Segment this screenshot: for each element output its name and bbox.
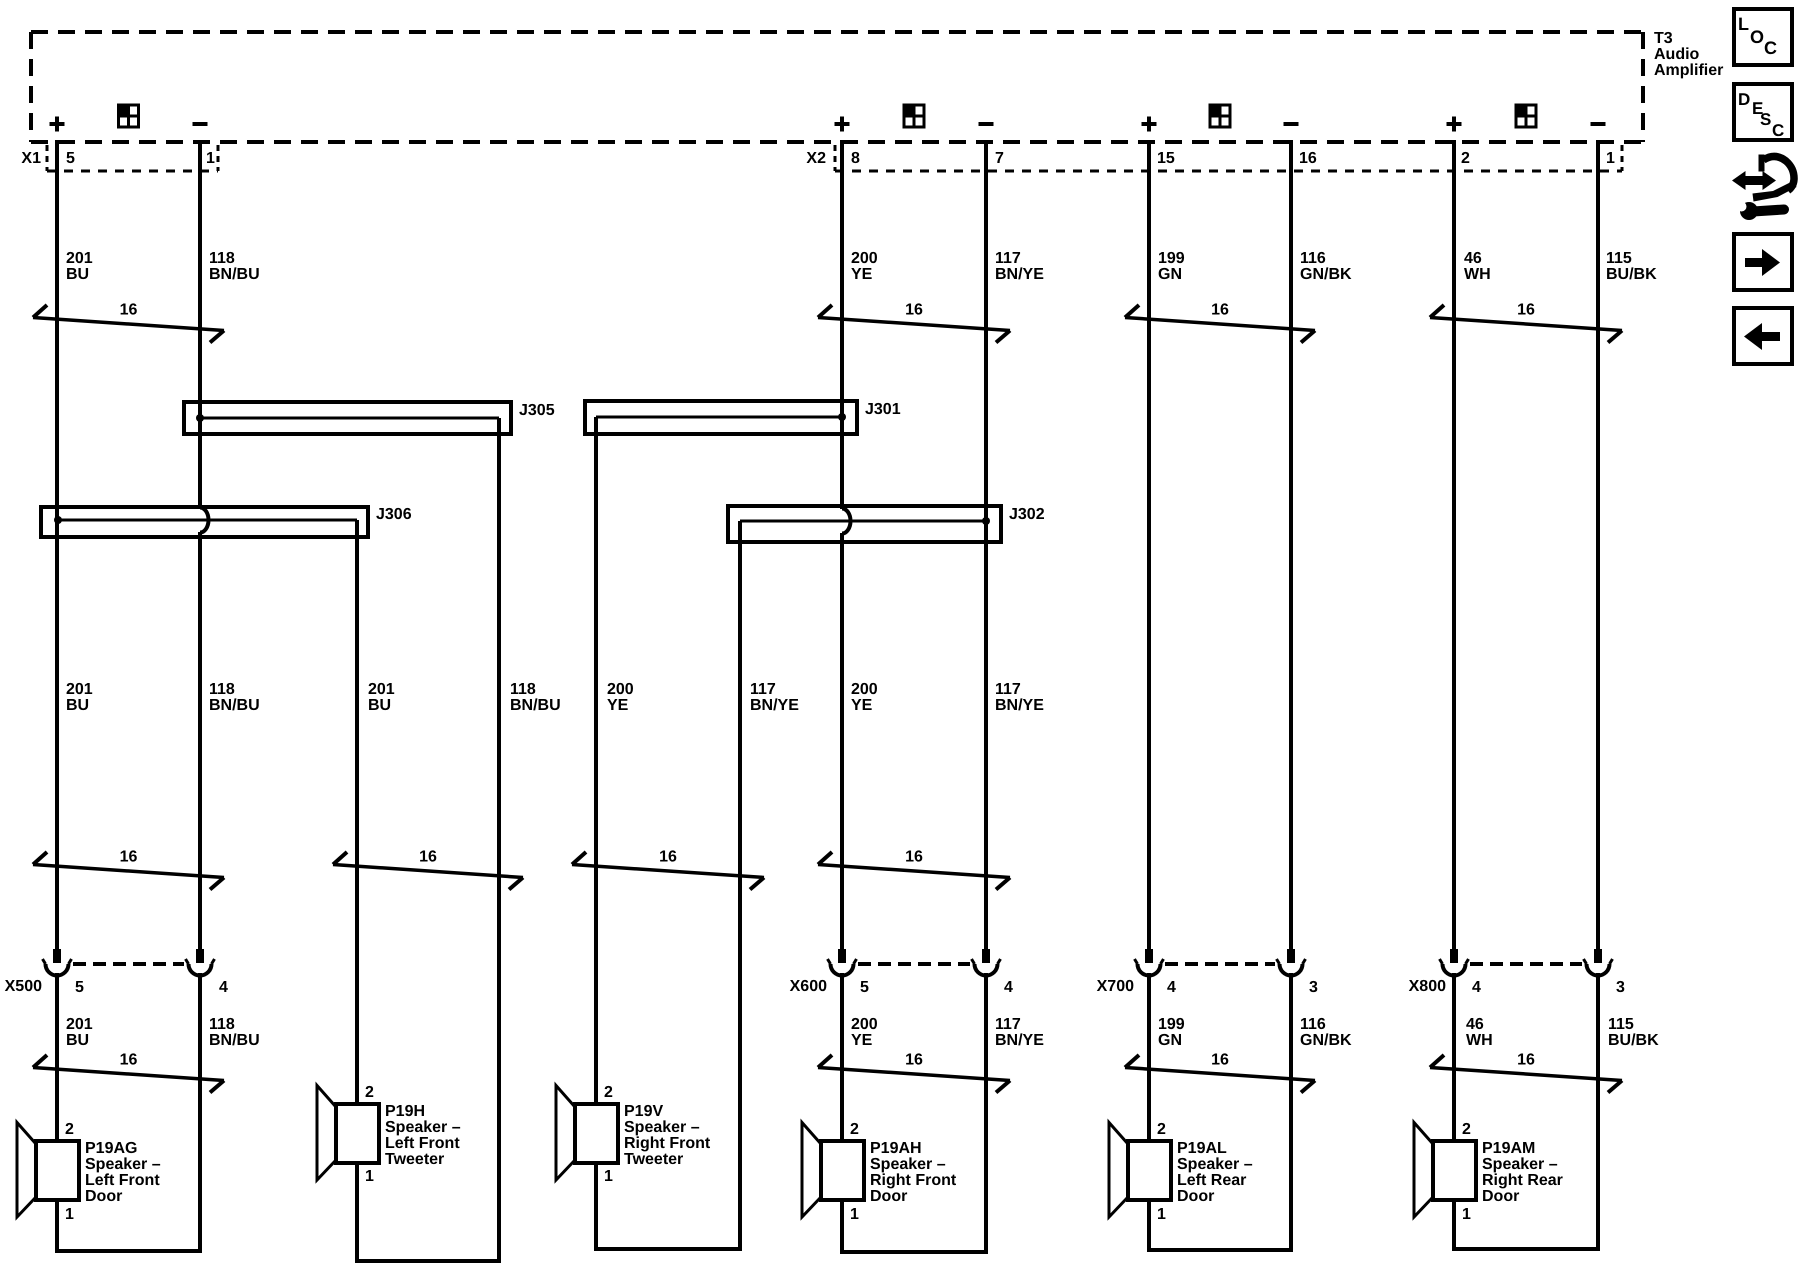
speaker P19AH: [802, 1123, 864, 1218]
wire label 46 WH (top row): [1464, 250, 1491, 283]
wire 201 BU tap from J306 down to P19H: [355, 520, 359, 1104]
speaker P19V: [556, 1086, 618, 1181]
svg-text:117: 117: [995, 1016, 1021, 1033]
svg-text:3: 3: [1616, 979, 1625, 996]
svg-text:O: O: [1750, 27, 1764, 47]
amplifier T3 dashed box: [31, 32, 1643, 142]
svg-text:1: 1: [365, 1168, 374, 1185]
svg-text:GN: GN: [1158, 266, 1182, 283]
svg-text:YE: YE: [851, 697, 873, 714]
connector X1 dashed box: [47, 145, 218, 171]
svg-text:Right Front: Right Front: [870, 1172, 957, 1189]
wire label 116 GN/BK (bottom row): [1300, 1016, 1352, 1049]
svg-text:117: 117: [995, 681, 1021, 698]
wire gauge 16 marker (bottom row, wires at x=842,986): [818, 1052, 1010, 1093]
svg-text:D: D: [1738, 90, 1750, 109]
wire 117 BN/YE tap from J302 down to P19V loop: [738, 521, 742, 1249]
label P19AL Speaker - Left Rear Door: [1177, 1140, 1253, 1205]
amp output + terminal (pair 3): [1142, 117, 1157, 132]
svg-text:X2: X2: [806, 150, 826, 167]
svg-text:Left Front: Left Front: [85, 1172, 160, 1189]
wire label 200 YE (middle row): [851, 681, 878, 714]
svg-text:J306: J306: [376, 506, 412, 523]
svg-text:YE: YE: [851, 266, 873, 283]
amp output + terminal (pair 4): [1447, 117, 1462, 132]
wire gauge 16 marker (bottom row, wires at x=57,200): [33, 1052, 224, 1093]
wire label 200 YE (top row): [851, 250, 878, 283]
label P19V Speaker - Right Front Tweeter: [624, 1103, 711, 1168]
amp output + terminal (pair 2): [835, 117, 850, 132]
wire 118 BN/BU X500-4 to P19AG loop: [198, 973, 202, 1251]
wire P19H pin1 loop to J305 tap: [355, 1163, 501, 1261]
connector X600: [828, 949, 1001, 976]
svg-text:1: 1: [604, 1168, 613, 1185]
amp output - terminal (pair 1): [193, 122, 208, 126]
svg-text:BN/YE: BN/YE: [995, 1032, 1044, 1049]
svg-text:2: 2: [365, 1084, 374, 1101]
svg-text:X600: X600: [790, 978, 827, 995]
wire gauge 16 marker (top row, wires at x=57,200): [33, 302, 224, 343]
wire 46 WH from X2-2: [1452, 140, 1456, 950]
svg-text:J301: J301: [865, 401, 901, 418]
svg-text:J305: J305: [519, 402, 555, 419]
svg-text:L: L: [1738, 14, 1749, 34]
splice J301: [585, 401, 857, 434]
svg-text:4: 4: [1004, 979, 1013, 996]
svg-text:16: 16: [1299, 150, 1317, 167]
svg-text:P19V: P19V: [624, 1103, 663, 1120]
svg-text:WH: WH: [1466, 1032, 1493, 1049]
wire label 201 BU (bottom row): [66, 1016, 93, 1049]
wire label 201 BU (middle row): [368, 681, 395, 714]
wire gauge 16 marker (top row, wires at x=1149,1291): [1125, 302, 1315, 343]
splice J306: [41, 507, 368, 537]
svg-text:16: 16: [905, 1052, 923, 1069]
svg-text:P19AL: P19AL: [1177, 1140, 1227, 1157]
svg-text:Speaker –: Speaker –: [1177, 1156, 1253, 1173]
svg-text:X800: X800: [1409, 978, 1446, 995]
wire P19AH pin1 loop to X600-4: [840, 1200, 988, 1252]
svg-text:3: 3: [1309, 979, 1318, 996]
svg-text:2: 2: [604, 1084, 613, 1101]
svg-text:1: 1: [1462, 1206, 1471, 1223]
svg-text:1: 1: [65, 1206, 74, 1223]
svg-text:Audio: Audio: [1654, 46, 1700, 63]
wire gauge 16 marker (middle row, wires at x=357,499): [333, 849, 523, 890]
splice J302: [728, 506, 1001, 542]
wire label 201 BU (top row): [66, 250, 93, 283]
svg-text:200: 200: [851, 681, 878, 698]
wire label 201 BU (middle row): [66, 681, 93, 714]
svg-text:GN/BK: GN/BK: [1300, 1032, 1352, 1049]
label P19H Speaker - Left Front Tweeter: [385, 1103, 461, 1168]
wire 118 BN/BU from X1-1 (hops over J306 tap): [200, 140, 209, 950]
svg-text:16: 16: [1517, 302, 1535, 319]
svg-text:201: 201: [368, 681, 395, 698]
svg-text:118: 118: [209, 1016, 235, 1033]
svg-text:X700: X700: [1097, 978, 1134, 995]
speaker P19H: [317, 1086, 379, 1181]
svg-text:2: 2: [1157, 1121, 1166, 1138]
svg-text:BN/BU: BN/BU: [209, 266, 260, 283]
svg-text:16: 16: [905, 849, 923, 866]
amp output - terminal (pair 2): [979, 122, 994, 126]
svg-text:J302: J302: [1009, 506, 1045, 523]
svg-text:15: 15: [1157, 150, 1175, 167]
left arrow legend box: [1734, 308, 1792, 364]
connector X800: [1440, 949, 1613, 976]
svg-text:Amplifier: Amplifier: [1654, 62, 1723, 79]
svg-text:118: 118: [209, 250, 235, 267]
wire gauge 16 marker (bottom row, wires at x=1149,1291): [1125, 1052, 1315, 1093]
twisted-pair icon (pair 1): [119, 105, 139, 127]
amp output - terminal (pair 3): [1284, 122, 1299, 126]
speaker P19AG: [17, 1123, 79, 1218]
svg-text:115: 115: [1606, 250, 1632, 267]
label P19AM Speaker - Right Rear Door: [1482, 1140, 1563, 1205]
svg-text:GN: GN: [1158, 1032, 1182, 1049]
svg-text:Left Front: Left Front: [385, 1135, 460, 1152]
svg-text:201: 201: [66, 250, 93, 267]
svg-text:S: S: [1760, 110, 1771, 129]
svg-text:16: 16: [905, 302, 923, 319]
svg-text:1: 1: [1157, 1206, 1166, 1223]
svg-text:46: 46: [1464, 250, 1482, 267]
wire gauge 16 marker (middle row, wires at x=57,200): [33, 849, 224, 890]
wire label 117 BN/YE (middle row): [995, 681, 1044, 714]
svg-text:5: 5: [75, 979, 84, 996]
svg-text:C: C: [1764, 38, 1777, 58]
connector X2 dashed box: [835, 145, 1622, 171]
svg-text:P19AH: P19AH: [870, 1140, 922, 1157]
svg-text:Tweeter: Tweeter: [624, 1151, 683, 1168]
svg-text:Tweeter: Tweeter: [385, 1151, 444, 1168]
wire label 200 YE (middle row): [607, 681, 634, 714]
svg-text:Speaker –: Speaker –: [85, 1156, 161, 1173]
wire label 117 BN/YE (top row): [995, 250, 1044, 283]
svg-text:Door: Door: [870, 1188, 907, 1205]
svg-text:BN/BU: BN/BU: [510, 697, 561, 714]
twisted-pair icon (pair 4): [1516, 105, 1536, 127]
svg-text:4: 4: [1167, 979, 1176, 996]
svg-text:BU: BU: [368, 697, 391, 714]
svg-text:Left Rear: Left Rear: [1177, 1172, 1246, 1189]
wire 200 YE from X2-8 (hops over J302 tap): [842, 140, 851, 950]
svg-text:Door: Door: [1482, 1188, 1519, 1205]
wire 118 BN/BU tap from J305 down to P19H: [497, 418, 501, 1261]
svg-text:2: 2: [65, 1121, 74, 1138]
wire label 199 GN (top row): [1158, 250, 1185, 283]
wire 201 BU from X1-5: [55, 140, 59, 950]
wire 116 GN/BK X700-3 to P19AL loop: [1289, 973, 1293, 1250]
svg-text:T3: T3: [1654, 30, 1673, 47]
twisted-pair icon (pair 3): [1210, 105, 1230, 127]
svg-text:199: 199: [1158, 1016, 1185, 1033]
svg-text:BU: BU: [66, 266, 89, 283]
wire gauge 16 marker (middle row, wires at x=596,740): [572, 849, 764, 890]
svg-text:46: 46: [1466, 1016, 1484, 1033]
right arrow legend box: [1734, 234, 1792, 290]
svg-text:BU: BU: [66, 697, 89, 714]
amp output + terminal (pair 1): [50, 117, 65, 132]
svg-text:115: 115: [1608, 1016, 1634, 1033]
svg-text:BU: BU: [66, 1032, 89, 1049]
wire 117 BN/YE from X2-7: [984, 140, 988, 950]
svg-text:Door: Door: [1177, 1188, 1214, 1205]
svg-text:16: 16: [120, 1052, 138, 1069]
svg-text:4: 4: [1472, 979, 1481, 996]
wire 115 BU/BK X800-3 to P19AM loop: [1596, 973, 1600, 1249]
svg-text:Speaker –: Speaker –: [1482, 1156, 1558, 1173]
svg-text:16: 16: [120, 302, 138, 319]
svg-text:16: 16: [659, 849, 677, 866]
wire 200 YE X600-5 to P19AH: [840, 973, 844, 1141]
svg-text:YE: YE: [607, 697, 629, 714]
svg-text:P19AM: P19AM: [1482, 1140, 1535, 1157]
label T3 Audio Amplifier: [1654, 30, 1723, 79]
connector X700: [1135, 949, 1306, 976]
svg-text:P19H: P19H: [385, 1103, 425, 1120]
svg-text:200: 200: [607, 681, 634, 698]
service arrows and wrench icon: [1732, 155, 1797, 221]
wire P19V pin1 loop to J302 tap: [594, 1163, 742, 1249]
LOC legend box: [1734, 9, 1792, 65]
wire label 118 BN/BU (top row): [209, 250, 260, 283]
twisted-pair icon (pair 2): [904, 105, 924, 127]
svg-text:116: 116: [1300, 250, 1326, 267]
svg-text:118: 118: [209, 681, 235, 698]
wire 201 BU X500-5 to P19AG: [55, 973, 59, 1141]
svg-text:Speaker –: Speaker –: [870, 1156, 946, 1173]
svg-text:X500: X500: [5, 978, 42, 995]
svg-text:BN/YE: BN/YE: [995, 697, 1044, 714]
svg-text:16: 16: [120, 849, 138, 866]
svg-text:BU/BK: BU/BK: [1606, 266, 1657, 283]
svg-text:1: 1: [1606, 150, 1615, 167]
svg-text:16: 16: [1211, 302, 1229, 319]
label P19AH Speaker - Right Front Door: [870, 1140, 957, 1205]
svg-text:2: 2: [1461, 150, 1470, 167]
wire label 116 GN/BK (top row): [1300, 250, 1352, 283]
svg-text:200: 200: [851, 1016, 878, 1033]
speaker P19AL: [1109, 1123, 1171, 1218]
svg-text:1: 1: [850, 1206, 859, 1223]
svg-text:16: 16: [1517, 1052, 1535, 1069]
svg-text:116: 116: [1300, 1016, 1326, 1033]
svg-text:5: 5: [66, 150, 75, 167]
wire 199 GN from X2-15: [1147, 140, 1151, 950]
svg-text:199: 199: [1158, 250, 1185, 267]
svg-text:Speaker –: Speaker –: [385, 1119, 461, 1136]
svg-text:P19AG: P19AG: [85, 1140, 137, 1157]
wire 200 YE tap from J301 down to P19V: [594, 417, 598, 1104]
svg-text:200: 200: [851, 250, 878, 267]
amp output - terminal (pair 4): [1591, 122, 1606, 126]
wire gauge 16 marker (top row, wires at x=1454,1598): [1430, 302, 1622, 343]
svg-text:C: C: [1772, 121, 1784, 140]
wire 199 GN X700-4 to P19AL: [1147, 973, 1151, 1141]
wire label 200 YE (bottom row): [851, 1016, 878, 1049]
svg-text:117: 117: [995, 250, 1021, 267]
connector X500: [43, 949, 215, 976]
svg-text:118: 118: [510, 681, 536, 698]
svg-text:16: 16: [419, 849, 437, 866]
wire label 117 BN/YE (middle row): [750, 681, 799, 714]
speaker P19AM: [1414, 1123, 1476, 1218]
wire P19AL pin1 loop to X700-3: [1147, 1200, 1293, 1250]
svg-text:Door: Door: [85, 1188, 122, 1205]
wire P19AG pin1 loop to X500-4: [55, 1200, 202, 1251]
svg-text:BN/BU: BN/BU: [209, 1032, 260, 1049]
wire label 115 BU/BK (top row): [1606, 250, 1657, 283]
svg-text:X1: X1: [21, 150, 41, 167]
svg-text:1: 1: [206, 150, 215, 167]
svg-text:16: 16: [1211, 1052, 1229, 1069]
wire label 118 BN/BU (middle row): [510, 681, 561, 714]
splice J305: [184, 402, 511, 434]
wire P19AM pin1 loop to X800-3: [1452, 1200, 1600, 1249]
svg-text:GN/BK: GN/BK: [1300, 266, 1352, 283]
svg-text:2: 2: [850, 1121, 859, 1138]
wire 46 WH X800-4 to P19AM: [1452, 973, 1456, 1141]
wire label 118 BN/BU (middle row): [209, 681, 260, 714]
wire label 115 BU/BK (bottom row): [1608, 1016, 1659, 1049]
svg-text:BN/YE: BN/YE: [995, 266, 1044, 283]
svg-text:Speaker –: Speaker –: [624, 1119, 700, 1136]
svg-text:YE: YE: [851, 1032, 873, 1049]
svg-text:117: 117: [750, 681, 776, 698]
DESC legend box: [1734, 84, 1792, 140]
label P19AG Speaker - Left Front Door: [85, 1140, 161, 1205]
wire 115 BU/BK from X2-1: [1596, 140, 1600, 950]
svg-text:BU/BK: BU/BK: [1608, 1032, 1659, 1049]
svg-text:201: 201: [66, 681, 93, 698]
svg-text:2: 2: [1462, 1121, 1471, 1138]
wire gauge 16 marker (middle row, wires at x=842,986): [818, 849, 1010, 890]
wire 116 GN/BK from X2-16: [1289, 140, 1293, 950]
svg-text:Right Front: Right Front: [624, 1135, 711, 1152]
svg-text:Right Rear: Right Rear: [1482, 1172, 1563, 1189]
wire label 199 GN (bottom row): [1158, 1016, 1185, 1049]
wire label 46 WH (bottom row): [1466, 1016, 1493, 1049]
wire 117 BN/YE X600-4 to P19AH loop: [984, 973, 988, 1252]
wire label 117 BN/YE (bottom row): [995, 1016, 1044, 1049]
wire label 118 BN/BU (bottom row): [209, 1016, 260, 1049]
svg-text:5: 5: [860, 979, 869, 996]
svg-text:8: 8: [851, 150, 860, 167]
svg-text:BN/YE: BN/YE: [750, 697, 799, 714]
svg-text:201: 201: [66, 1016, 93, 1033]
wire gauge 16 marker (bottom row, wires at x=1454,1598): [1430, 1052, 1622, 1093]
svg-text:BN/BU: BN/BU: [209, 697, 260, 714]
wire gauge 16 marker (top row, wires at x=842,986): [818, 302, 1010, 343]
svg-text:7: 7: [995, 150, 1004, 167]
svg-text:WH: WH: [1464, 266, 1491, 283]
svg-text:4: 4: [219, 979, 228, 996]
